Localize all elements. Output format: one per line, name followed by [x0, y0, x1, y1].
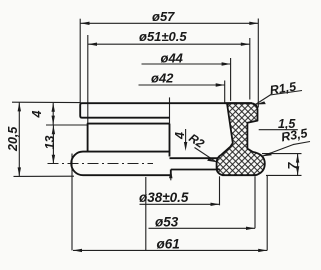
arrow ø61 left: [73, 249, 82, 252]
middle block outline: [88, 124, 170, 152]
arrow 4-left up: [52, 103, 55, 112]
rubber section (hatched): [217, 103, 265, 175]
wire: ext line left of 20,5 bottom: [14, 175, 75, 177]
web bottom edge: [171, 169, 220, 171]
centerline of spring capsule: [48, 163, 154, 165]
web top edge: [170, 157, 219, 159]
arrow ø61 right: [258, 249, 267, 252]
ext line ø44 right: [230, 58, 232, 101]
dim line ø53: [149, 227, 256, 229]
svg-text:7: 7: [286, 162, 300, 170]
ext line 7 top: [262, 153, 302, 155]
arrow ø42 right: [216, 83, 225, 86]
svg-text:ø61: ø61: [157, 237, 180, 252]
leader R3,5: [262, 144, 294, 156]
ext line center-low: [145, 177, 147, 250]
arrow R2: [207, 158, 217, 162]
dim line 4 left vertical: [52, 103, 54, 125]
wire: ext line for 13/4 boundary: [46, 124, 88, 126]
ext line ø61 right: [266, 176, 268, 250]
dim line 13 vertical: [52, 125, 54, 164]
arrow 7 up: [296, 154, 299, 163]
spring capsule outline: [71, 152, 171, 176]
washer top bar outline: [80, 103, 252, 118]
arrow 20,5 up: [18, 102, 21, 111]
svg-text:ø42: ø42: [151, 71, 174, 86]
arrow ø38 right: [211, 203, 220, 206]
arrow shaft 4-center lower: [170, 172, 172, 181]
ext line ø57 left: [79, 19, 81, 103]
svg-text:ø57: ø57: [152, 9, 175, 24]
leader R2: [195, 148, 217, 163]
ext line ø51 right: [249, 38, 251, 100]
arrow 13 up: [52, 125, 55, 134]
arrow 7 down: [296, 166, 299, 175]
dim line ø57: [81, 22, 259, 24]
ext line block right edge up: [169, 97, 171, 123]
dim line ø61: [73, 249, 267, 251]
part outlines (thick): [71, 103, 252, 175]
svg-text:R2: R2: [186, 131, 207, 151]
ext line ø57 right: [257, 19, 259, 108]
svg-text:4: 4: [173, 132, 187, 140]
svg-text:20,5: 20,5: [6, 126, 20, 152]
leader R1,5: [255, 95, 271, 105]
dim line 20,5 vertical: [18, 102, 20, 176]
ext line ø38 right: [219, 176, 221, 205]
arrow 20,5 down: [18, 167, 21, 176]
arrow ø53 right: [246, 227, 255, 230]
svg-text:ø53: ø53: [155, 214, 179, 229]
rubber lip body: [217, 103, 265, 175]
ext line ø42 right: [224, 81, 226, 104]
arrow 4-left down: [52, 116, 55, 125]
arrow ø57 right: [249, 22, 258, 25]
web step: [170, 170, 172, 176]
wire: ext line left of 20,5 top: [12, 101, 80, 103]
dim line 7 vertical: [297, 154, 299, 176]
svg-text:13: 13: [43, 136, 57, 150]
arrow 13 down: [52, 155, 55, 164]
ext line ø61 left: [71, 154, 73, 251]
ext line ø53 right: [254, 176, 256, 228]
arrow shaft 4-center upper: [185, 129, 187, 147]
leader 1,5: [259, 129, 298, 131]
dim line ø42: [139, 84, 225, 86]
arrow R1,5: [255, 101, 265, 104]
arrow ø44 right: [222, 62, 231, 65]
arrow ø57 left: [81, 22, 90, 25]
arrow ø51 left: [88, 43, 97, 46]
svg-text:R1,5: R1,5: [269, 79, 298, 97]
dim line ø38: [140, 203, 220, 205]
svg-text:4: 4: [30, 111, 44, 119]
ext line 7 bottom: [266, 174, 302, 176]
arrow R3,5: [262, 152, 272, 156]
block right edge: [169, 124, 171, 157]
svg-text:ø44: ø44: [161, 51, 184, 66]
svg-text:ø38±0.5: ø38±0.5: [139, 190, 189, 205]
svg-text:ø51±0.5: ø51±0.5: [139, 29, 187, 44]
dim line ø51: [88, 43, 250, 45]
arrow 4-center down: [184, 142, 187, 151]
ext line ø51 left: [87, 35, 89, 124]
dim line ø44: [142, 63, 231, 65]
arrowheads: [18, 22, 300, 253]
arrow 4-center up: [169, 169, 172, 178]
arrow ø51 right: [241, 43, 250, 46]
